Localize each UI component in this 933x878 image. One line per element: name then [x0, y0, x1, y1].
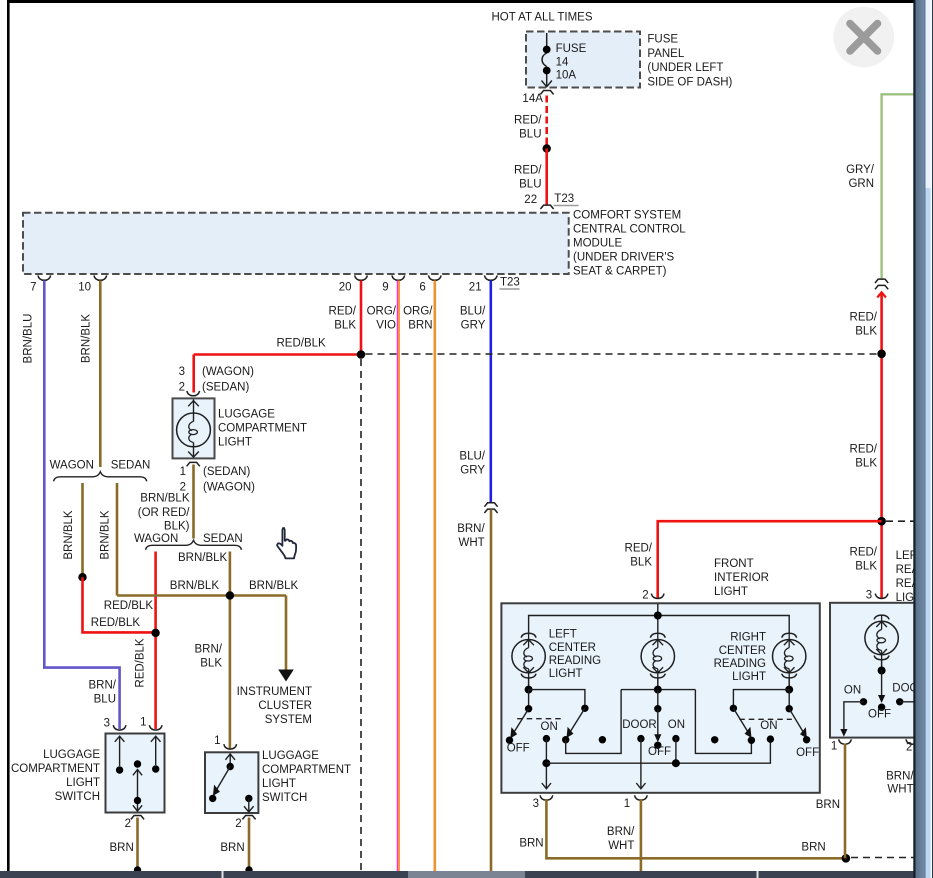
svg-text:CLUSTER: CLUSTER	[258, 700, 312, 712]
svg-text:(UNDER DRIVER'S: (UNDER DRIVER'S	[573, 252, 675, 264]
luggage light name text	[218, 408, 307, 448]
rear blade to OFF	[878, 671, 885, 704]
rear ON wire to pin 1	[840, 702, 863, 737]
node junction pin20/branch	[357, 350, 366, 359]
left pole dot	[599, 736, 606, 743]
svg-text:BRN: BRN	[408, 319, 432, 331]
luggage compartment light lamp	[177, 400, 211, 458]
svg-text:(UNDER LEFT: (UNDER LEFT	[647, 62, 723, 74]
svg-text:RED/: RED/	[850, 312, 878, 324]
svg-text:BLK): BLK)	[164, 521, 190, 533]
label RED/BLU upper	[514, 114, 542, 140]
wire RED/BLK wagon jog	[83, 577, 156, 632]
node interconnect center	[672, 759, 680, 767]
pin 14A connector	[540, 91, 553, 95]
svg-text:LIGHT: LIGHT	[549, 668, 583, 680]
wire BLU/GRY from pin 21	[489, 281, 492, 504]
svg-text:BRN/: BRN/	[886, 771, 914, 783]
label RED/BLK right lower	[850, 546, 878, 572]
front light internal top rail	[529, 616, 790, 635]
svg-text:ORG/: ORG/	[403, 305, 433, 317]
svg-text:FUSE: FUSE	[647, 34, 678, 46]
svg-text:GRY: GRY	[461, 319, 486, 331]
left switch pivot node	[525, 705, 532, 712]
node interconnect left	[542, 759, 550, 767]
pin 10 connector	[94, 275, 107, 280]
svg-text:3: 3	[179, 366, 185, 378]
lamp right center reading light	[773, 633, 806, 689]
svg-text:14: 14	[556, 57, 569, 69]
svg-text:RED/BLK: RED/BLK	[91, 617, 141, 629]
left lamp branch wiring	[529, 690, 585, 709]
wire ON to pin 3 internal	[542, 739, 551, 789]
label BRN/WHT rear pin 2	[886, 771, 914, 796]
svg-text:VIO: VIO	[376, 319, 396, 331]
right lamp branch wiring	[733, 690, 789, 709]
node BRN bottom left	[134, 866, 141, 873]
label INSTRUMENT CLUSTER SYSTEM	[237, 686, 312, 726]
label RED/BLK right middle	[850, 443, 878, 469]
node BRN bottom right	[245, 866, 252, 873]
svg-text:LIGHT: LIGHT	[732, 671, 766, 683]
wire BRN/BLK from pin 10	[99, 281, 102, 468]
svg-text:BRN: BRN	[519, 837, 543, 849]
pin 22 connector	[540, 205, 553, 209]
svg-text:BLU: BLU	[519, 128, 541, 140]
bottom horizontal scrollbar track	[0, 871, 916, 878]
left switch pin 2 connector	[131, 816, 144, 820]
right blade to OFF	[789, 709, 807, 739]
front interior light box	[501, 603, 819, 793]
dashed stub right of BRN node	[851, 857, 915, 859]
label LEFT REAR READING LIGHT	[896, 550, 933, 604]
wire ORG/VIO from pin 9 (two color)	[398, 281, 400, 872]
lamp left rear reading light	[865, 615, 898, 671]
wire ORG/BRN from pin 6	[433, 281, 436, 872]
svg-text:22: 22	[524, 194, 537, 206]
svg-text:FRONT: FRONT	[714, 558, 754, 570]
left second blade node	[581, 705, 588, 712]
svg-text:COMPARTMENT: COMPARTMENT	[218, 422, 307, 434]
svg-text:WAGON: WAGON	[134, 533, 178, 545]
bottom scrollbar light segment	[408, 871, 525, 878]
svg-text:OFF: OFF	[796, 747, 819, 759]
wire BRN from left switch	[136, 818, 139, 872]
svg-text:RED/BLK: RED/BLK	[277, 338, 327, 350]
node junction red horizontal right	[877, 517, 886, 526]
wire RED/BLK drop to luggage light	[192, 355, 195, 393]
svg-text:ON: ON	[541, 721, 558, 733]
left switch pin 3 connector	[113, 725, 126, 730]
front light pin 1 connector	[635, 795, 648, 800]
svg-text:WHT: WHT	[887, 783, 913, 795]
svg-text:GRY: GRY	[460, 464, 485, 476]
front light pin 2 connector	[651, 594, 664, 599]
wire RED/BLU solid segment	[545, 149, 548, 206]
pin 9 connector	[392, 275, 405, 280]
svg-text:READING: READING	[714, 658, 766, 670]
svg-text:OFF: OFF	[507, 743, 530, 755]
svg-text:READING: READING	[549, 655, 601, 667]
svg-text:WAGON: WAGON	[50, 459, 94, 471]
svg-text:(SEDAN): (SEDAN)	[203, 466, 250, 478]
wire BRN/BLK below luggage light	[192, 465, 195, 539]
svg-text:T23: T23	[500, 277, 520, 289]
wire RED/BLK wagon branch of split2	[154, 552, 157, 730]
label BRN/BLK (OR RED/BLK)	[138, 493, 191, 533]
svg-text:ON: ON	[760, 720, 777, 732]
center pivot node	[654, 705, 661, 712]
svg-text:COMFORT SYSTEM: COMFORT SYSTEM	[573, 210, 681, 222]
center ON drop	[675, 739, 677, 764]
path contact to center lamp right	[695, 690, 751, 754]
svg-text:BRN/BLK: BRN/BLK	[140, 493, 190, 505]
right scrollbar right dark edge	[932, 0, 933, 878]
center lamp node	[654, 686, 662, 694]
svg-text:(WAGON): (WAGON)	[202, 366, 254, 378]
fuse panel name text	[647, 34, 732, 89]
svg-text:BRN/BLK: BRN/BLK	[63, 510, 75, 560]
svg-text:BLU/: BLU/	[460, 305, 486, 317]
svg-text:HOT AT ALL TIMES: HOT AT ALL TIMES	[492, 12, 593, 24]
rear pin 2 connector	[906, 739, 919, 744]
svg-text:BRN/: BRN/	[607, 826, 635, 838]
left lamp node	[525, 686, 533, 694]
svg-text:SWITCH: SWITCH	[55, 791, 100, 803]
left switch contact left	[115, 736, 125, 774]
svg-text:WHT: WHT	[608, 840, 634, 852]
right scrollbar light strip lower	[926, 188, 931, 878]
svg-text:3: 3	[104, 717, 110, 729]
wire BRN from right switch	[248, 818, 251, 872]
svg-text:RED/BLK: RED/BLK	[135, 638, 147, 688]
svg-text:COMPARTMENT: COMPARTMENT	[11, 763, 100, 775]
center-right blade contact node	[748, 737, 755, 744]
node junction sedan wire	[226, 591, 234, 599]
svg-text:SEDAN: SEDAN	[111, 459, 151, 471]
svg-text:FUSE: FUSE	[556, 43, 587, 55]
right pivot node left	[730, 705, 737, 712]
svg-text:SEAT & CARPET): SEAT & CARPET)	[573, 266, 667, 278]
lamp center (front interior)	[641, 633, 674, 689]
label RED/BLU lower	[514, 164, 542, 190]
label BRN/WHT front pin1	[607, 826, 635, 852]
svg-text:BRN: BRN	[110, 842, 134, 854]
diagram frame left border	[7, 0, 10, 871]
svg-text:SEDAN: SEDAN	[203, 533, 243, 545]
module name text	[573, 210, 686, 278]
right switch pin 2 connector	[242, 816, 255, 820]
pin 7 connector	[38, 275, 51, 280]
wire BRN/BLK horizontal to instrument cluster	[117, 594, 286, 597]
left second blade	[567, 708, 585, 738]
left switch name text	[11, 749, 100, 803]
terminal T23 top label	[554, 193, 579, 206]
dashed stub right of junction	[886, 520, 915, 522]
right switch pin 1 connector	[224, 744, 237, 749]
svg-text:BLK: BLK	[855, 457, 877, 469]
svg-text:BLU: BLU	[94, 693, 116, 705]
wire DOOR to pin 1 internal	[636, 739, 645, 789]
svg-text:LIGHT: LIGHT	[218, 436, 252, 448]
svg-text:LUGGAGE: LUGGAGE	[218, 408, 275, 420]
svg-text:BLK: BLK	[630, 556, 652, 568]
right pivot node	[786, 705, 793, 712]
right lamp center drop	[788, 690, 790, 709]
svg-text:2: 2	[179, 381, 185, 393]
svg-text:LIGHT: LIGHT	[262, 778, 296, 790]
comfort system central control module box	[23, 213, 569, 274]
node splice wagon BRN to RED	[78, 573, 86, 581]
svg-text:LIGHT: LIGHT	[66, 777, 100, 789]
svg-text:MODULE: MODULE	[573, 238, 623, 250]
svg-text:BRN/: BRN/	[457, 523, 485, 535]
lamp left center reading light	[512, 633, 545, 689]
left switch contact right	[151, 736, 161, 773]
pin 21 connector	[484, 275, 497, 280]
svg-text:RIGHT: RIGHT	[730, 632, 766, 644]
svg-text:CENTRAL CONTROL: CENTRAL CONTROL	[573, 224, 686, 236]
svg-text:DOOR: DOOR	[622, 719, 657, 731]
wire RED/BLK horizontal branch	[194, 353, 361, 356]
svg-text:14A: 14A	[522, 93, 543, 105]
label BLU/GRY at connector	[459, 450, 485, 476]
right OFF contact	[803, 736, 810, 743]
svg-text:BRN/: BRN/	[195, 643, 223, 655]
svg-text:10A: 10A	[556, 70, 577, 82]
svg-text:LEFT: LEFT	[549, 629, 577, 641]
left blade contact node	[562, 736, 569, 743]
svg-text:BRN/BLK: BRN/BLK	[100, 510, 112, 560]
center DOOR contact	[637, 735, 644, 742]
svg-text:ON: ON	[668, 719, 685, 731]
svg-text:BRN/BLK: BRN/BLK	[249, 580, 299, 592]
right scrollbar white highlight	[931, 0, 933, 878]
pin 2 (SEDAN) label	[179, 381, 250, 393]
node rail junction	[654, 612, 662, 620]
diagram frame top border	[7, 0, 915, 3]
svg-text:GRN: GRN	[848, 178, 874, 190]
close (X) button	[833, 7, 894, 68]
right switch lever	[209, 754, 235, 802]
pin 20 connector	[355, 275, 368, 280]
fuse labels FUSE 14 10A	[556, 43, 587, 82]
rear DOOR stub	[900, 701, 916, 703]
node splice on RED/BLU	[543, 144, 551, 152]
svg-text:(OR RED/: (OR RED/	[138, 507, 191, 519]
pin 2 (WAGON) label	[180, 481, 256, 493]
right mech link dashed	[739, 718, 792, 720]
svg-text:1: 1	[214, 735, 220, 747]
svg-text:7: 7	[30, 281, 36, 293]
svg-text:RED/BLK: RED/BLK	[104, 600, 154, 612]
label FRONT INTERIOR LIGHT	[714, 558, 769, 598]
svg-text:WHT: WHT	[459, 537, 485, 549]
center ON contact	[672, 735, 679, 742]
svg-text:RED/: RED/	[625, 542, 653, 554]
wire BRN/WHT from front pin 1	[640, 799, 643, 878]
right vertical scrollbar body gradient	[916, 0, 925, 878]
front light pin 3 connector	[540, 795, 553, 800]
luggage light bottom connector	[187, 462, 200, 466]
wire BRN/BLK sedan branch of split2	[229, 552, 232, 749]
left switch pin 1 connector	[149, 725, 162, 730]
center lamp horizontal	[621, 689, 695, 691]
pin 1 (SEDAN) label	[180, 466, 251, 478]
svg-text:CENTER: CENTER	[549, 642, 596, 654]
terminal T23 bottom label	[500, 277, 520, 290]
bottom scrollbar separator 1	[222, 871, 224, 878]
svg-text:ORG/: ORG/	[367, 305, 397, 317]
label BRN/BLK to right switch	[195, 643, 223, 669]
svg-text:BLK: BLK	[855, 326, 877, 338]
path contact to center lamp left	[566, 690, 621, 754]
node junction BRN bottom	[842, 854, 851, 863]
svg-text:BRN/BLK: BRN/BLK	[170, 580, 220, 592]
svg-text:RED/: RED/	[850, 443, 878, 455]
rear pin 1 connector	[839, 739, 852, 744]
wire BRN/BLK wagon branch	[81, 483, 84, 577]
rear lamp node	[878, 667, 886, 675]
svg-text:RED/: RED/	[329, 305, 357, 317]
svg-text:1: 1	[140, 716, 146, 728]
luggage light top connector	[187, 391, 200, 396]
wire GRY/GRN top right	[882, 94, 916, 279]
label ORG/BRN	[403, 305, 433, 331]
rear OFF contact	[878, 704, 885, 711]
svg-text:21: 21	[469, 281, 482, 293]
left ON contact	[543, 735, 550, 742]
svg-text:SYSTEM: SYSTEM	[265, 714, 312, 726]
svg-text:10: 10	[78, 281, 91, 293]
center lamp drop	[657, 690, 659, 709]
wire BRN/BLK sedan branch	[116, 483, 119, 596]
right blade from left pivot	[733, 708, 751, 738]
svg-text:RED/: RED/	[514, 164, 542, 176]
svg-text:PANEL: PANEL	[647, 48, 684, 60]
label BRN/BLU near left switch	[89, 679, 117, 705]
split WAGON/SEDAN under pin 10	[50, 459, 151, 481]
wire RED/BLK horizontal to front light	[658, 521, 882, 598]
fuse F14 10A	[542, 33, 552, 87]
cursor hand pointer	[277, 528, 296, 558]
svg-text:3: 3	[866, 589, 872, 601]
center pole dot	[711, 736, 718, 743]
dashed line horizontal to right circuit	[366, 353, 878, 355]
svg-text:BRN: BRN	[801, 841, 825, 853]
label GRY/GRN	[846, 164, 875, 190]
svg-text:BLK: BLK	[855, 560, 877, 572]
svg-text:(WAGON): (WAGON)	[203, 481, 255, 493]
wire BRN from front pin 3	[546, 799, 846, 858]
svg-text:BRN/BLU: BRN/BLU	[23, 314, 35, 364]
label BRN/WHT	[457, 523, 485, 549]
svg-text:LUGGAGE: LUGGAGE	[43, 749, 100, 761]
svg-text:BRN/BLK: BRN/BLK	[178, 552, 228, 564]
right switch fixed contact	[244, 795, 254, 812]
interconnect bottom rail	[546, 739, 770, 763]
wire BRN/WHT long drop	[490, 510, 493, 872]
right ON contact	[767, 735, 774, 742]
wire BRN from rear pin 1	[844, 744, 847, 859]
svg-text:20: 20	[339, 281, 352, 293]
svg-text:LUGGAGE: LUGGAGE	[262, 750, 319, 762]
wire BRN/BLU from pin 7	[44, 281, 119, 730]
svg-text:BRN: BRN	[220, 842, 244, 854]
arrow instrument cluster system	[278, 670, 294, 682]
right lamp node	[785, 686, 793, 694]
left switch blade to OFF	[510, 709, 528, 739]
right scrollbar light strip upper (thumb)	[926, 0, 931, 188]
svg-text:3: 3	[533, 798, 539, 810]
svg-text:LIGHT: LIGHT	[714, 586, 748, 598]
node junction red branches	[151, 629, 159, 637]
center OFF contact	[654, 742, 661, 749]
rear DOOR contact	[896, 698, 903, 705]
label BLU/GRY	[460, 305, 486, 331]
pin 3 (WAGON) label	[179, 366, 255, 378]
split WAGON/SEDAN under luggage light	[134, 533, 243, 550]
wire RED/BLK right vertical	[877, 292, 886, 598]
svg-text:T23: T23	[554, 193, 574, 205]
svg-text:INTERIOR: INTERIOR	[714, 572, 769, 584]
svg-text:1: 1	[831, 740, 837, 752]
svg-text:6: 6	[419, 281, 425, 293]
wire to instrument cluster arrow	[285, 596, 288, 671]
label RED/BLK right upper	[850, 312, 878, 338]
svg-text:INSTRUMENT: INSTRUMENT	[237, 686, 312, 698]
inline connector GRY/GRN to RED/BLK	[875, 279, 888, 289]
left switch mech link dashed	[517, 718, 563, 720]
label RED/BLK pin20	[329, 305, 357, 331]
svg-text:9: 9	[382, 281, 388, 293]
rear light pin 3 connector	[875, 594, 888, 599]
left switch movable contact	[133, 760, 142, 811]
svg-text:CENTER: CENTER	[719, 645, 766, 657]
svg-text:BLU: BLU	[519, 178, 541, 190]
svg-text:GRY/: GRY/	[846, 164, 875, 176]
front light pin2 internal line	[657, 604, 659, 634]
svg-text:2: 2	[906, 741, 912, 753]
svg-text:1: 1	[180, 466, 186, 478]
svg-text:COMPARTMENT: COMPARTMENT	[262, 764, 351, 776]
left lamp center drop	[528, 690, 530, 709]
svg-text:RED/: RED/	[514, 114, 542, 126]
label ORG/VIO	[367, 305, 397, 331]
luggage compartment light box	[173, 398, 215, 458]
inline connector BLU/GRY to BRN/WHT	[484, 503, 497, 513]
svg-text:RED/: RED/	[850, 546, 878, 558]
node junction dashed/red right	[877, 350, 886, 359]
right vertical scrollbar dark frame edge	[913, 0, 915, 878]
label LEFT CENTER READING LIGHT	[549, 629, 601, 681]
label RED/BLK at front light pin 2	[625, 542, 653, 568]
svg-text:2: 2	[642, 589, 648, 601]
svg-text:2: 2	[125, 818, 131, 830]
wire RED/BLU dashed segment	[545, 96, 548, 149]
right luggage light switch box	[205, 752, 258, 813]
rear ON contact	[860, 698, 867, 705]
svg-text:BLK: BLK	[200, 657, 222, 669]
left rear reading light box	[830, 603, 933, 738]
svg-text:2: 2	[235, 818, 241, 830]
center blade to OFF	[654, 709, 661, 743]
svg-text:BRN/: BRN/	[89, 679, 117, 691]
wire RED/BLK from pin 20	[360, 281, 363, 355]
svg-text:1: 1	[624, 798, 630, 810]
svg-text:(SEDAN): (SEDAN)	[202, 381, 249, 393]
bottom scrollbar separator 2	[757, 871, 759, 878]
